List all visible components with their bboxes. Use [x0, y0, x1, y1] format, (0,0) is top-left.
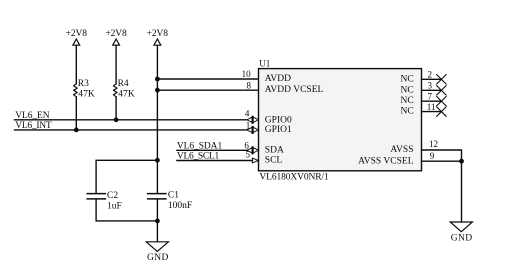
wire: NC pin 7 [422, 100, 442, 102]
svg-text:C1: C1 [168, 191, 179, 201]
junction: C2 branch top tee [155, 158, 160, 163]
svg-text:VL6_EN: VL6_EN [15, 111, 50, 121]
wire: main +2V8 rail down to C1 top plate [156, 45, 158, 193]
IC U1 body [259, 69, 422, 171]
svg-text:U1: U1 [259, 58, 270, 68]
pin arrow GPIO1 (bidirectional) [247, 127, 259, 133]
wire: R3 bottom down to VL6_INT [75, 97, 77, 130]
svg-text:R4: R4 [118, 79, 129, 89]
svg-text:GND: GND [451, 233, 473, 243]
pin arrow SDA (bidirectional) [247, 147, 259, 153]
svg-text:+2V8: +2V8 [66, 29, 88, 39]
no-connect X (pin 2) [437, 75, 446, 84]
svg-text:NC: NC [400, 85, 413, 95]
svg-text:47K: 47K [78, 90, 95, 100]
wire: C2 branch top [96, 160, 157, 193]
svg-text:3: 3 [428, 81, 433, 91]
svg-text:VL6_SDA1: VL6_SDA1 [177, 142, 223, 152]
junction: rail to pin10 [155, 77, 160, 82]
wire: net VL6_EN [15, 119, 247, 121]
capacitor C1 [148, 194, 166, 199]
ground symbol (right) [450, 222, 472, 232]
wire: C2 branch bottom [96, 199, 157, 221]
svg-text:AVSS: AVSS [390, 145, 413, 155]
svg-text:2: 2 [428, 70, 433, 80]
svg-text:GND: GND [147, 253, 169, 263]
svg-text:+2V8: +2V8 [105, 29, 127, 39]
svg-text:AVDD VCSEL: AVDD VCSEL [265, 85, 324, 95]
svg-text:11: 11 [427, 102, 436, 112]
no-connect X (pin 3) [437, 86, 446, 95]
wire: net VL6_SCL1 [177, 160, 253, 162]
svg-text:VL6_INT: VL6_INT [15, 121, 52, 131]
svg-text:VL6_SCL1: VL6_SCL1 [177, 152, 220, 162]
svg-text:12: 12 [429, 139, 438, 149]
svg-text:GPIO1: GPIO1 [265, 125, 292, 135]
svg-text:8: 8 [247, 80, 252, 90]
no-connect X (pin 11) [437, 107, 446, 116]
wire: NC pin 2 [422, 78, 442, 80]
svg-text:NC: NC [400, 107, 413, 117]
svg-text:47K: 47K [118, 90, 135, 100]
svg-text:9: 9 [430, 151, 435, 161]
wire: R4 bottom down to VL6_EN [115, 97, 117, 120]
svg-text:AVSS VCSEL: AVSS VCSEL [358, 156, 414, 166]
svg-text:NC: NC [400, 96, 413, 106]
pin arrow SCL (input) [252, 158, 258, 163]
junction: C2 branch bottom tee [155, 219, 160, 224]
wire: AVSS VCSEL pin 9 [422, 160, 462, 162]
wire: AVSS pin 12 to GND drop [422, 150, 462, 222]
ground symbol (left) [146, 242, 168, 252]
svg-text:SCL: SCL [265, 156, 283, 166]
wire: C1 bottom plate down to GND [156, 199, 158, 241]
wire: AVDD pin 10 [157, 78, 258, 80]
svg-text:SDA: SDA [265, 145, 284, 155]
resistor R3 [74, 84, 78, 97]
power symbol +2V8 (R3 rail) [73, 39, 80, 45]
svg-text:AVDD: AVDD [265, 74, 291, 84]
power symbol +2V8 (R4 rail) [113, 39, 120, 45]
no-connect X (pin 7) [437, 97, 446, 106]
svg-text:C2: C2 [107, 191, 118, 201]
svg-text:NC: NC [400, 74, 413, 84]
svg-text:+2V8: +2V8 [147, 29, 169, 39]
junction: rail to pin8 [155, 88, 160, 93]
junction: R4 to VL6_EN [114, 117, 119, 122]
capacitor C2 [87, 194, 105, 199]
wire: net VL6_INT [15, 129, 247, 131]
junction: R3 to VL6_INT [74, 127, 79, 132]
junction: pin 9 to GND drop [459, 159, 464, 164]
wire: +2V8 down to R4 top [115, 45, 117, 84]
svg-text:100nF: 100nF [168, 201, 192, 211]
wire: NC pin 11 [422, 111, 442, 113]
svg-text:1uF: 1uF [107, 201, 122, 211]
wire: AVDD VCSEL pin 8 [157, 89, 258, 91]
power symbol +2V8 (main rail) [154, 39, 161, 45]
wire: net VL6_SDA1 [177, 149, 247, 151]
svg-text:10: 10 [242, 69, 252, 79]
wire: +2V8 down to R3 top [75, 45, 77, 84]
svg-text:R3: R3 [78, 79, 89, 89]
svg-text:GPIO0: GPIO0 [265, 115, 292, 125]
svg-text:4: 4 [245, 108, 250, 118]
pin arrow GPIO0 (bidirectional) [247, 117, 259, 123]
resistor R4 [113, 84, 117, 97]
wire: NC pin 3 [422, 89, 442, 91]
svg-text:VL6180XV0NR/1: VL6180XV0NR/1 [259, 172, 329, 182]
svg-text:7: 7 [428, 92, 433, 102]
